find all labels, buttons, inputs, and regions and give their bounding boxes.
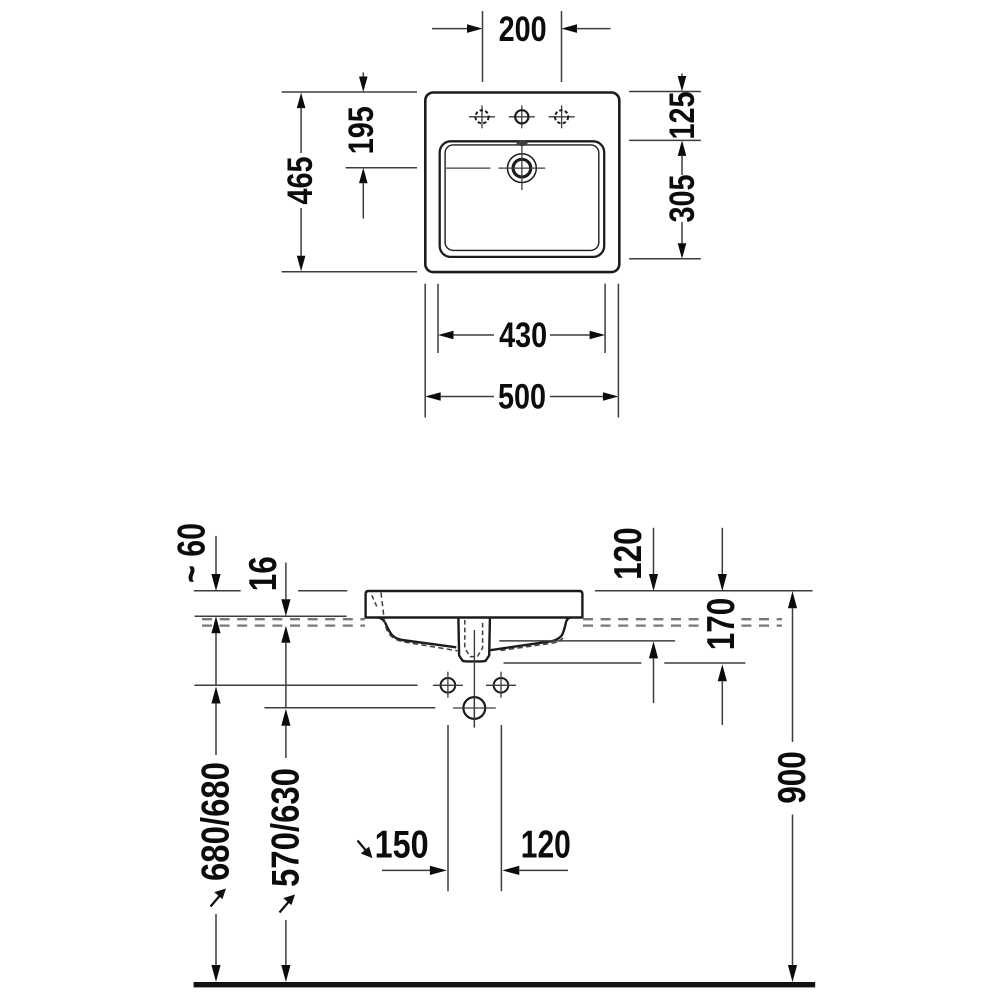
svg-text:150: 150 — [375, 824, 429, 867]
svg-text:~ 60: ~ 60 — [171, 523, 214, 583]
svg-text:305: 305 — [662, 175, 702, 223]
svg-text:465: 465 — [280, 157, 320, 205]
svg-text:125: 125 — [662, 92, 702, 140]
svg-text:900: 900 — [771, 751, 814, 804]
svg-text:430: 430 — [499, 315, 547, 355]
svg-text:500: 500 — [498, 377, 546, 417]
svg-text:200: 200 — [499, 9, 547, 49]
svg-text:120: 120 — [521, 824, 571, 867]
svg-text:170: 170 — [700, 598, 743, 651]
svg-text:16: 16 — [242, 556, 285, 591]
svg-text:195: 195 — [341, 106, 381, 154]
svg-text:570/630: 570/630 — [264, 768, 307, 887]
svg-text:680/680: 680/680 — [194, 762, 237, 881]
svg-text:120: 120 — [607, 527, 650, 580]
